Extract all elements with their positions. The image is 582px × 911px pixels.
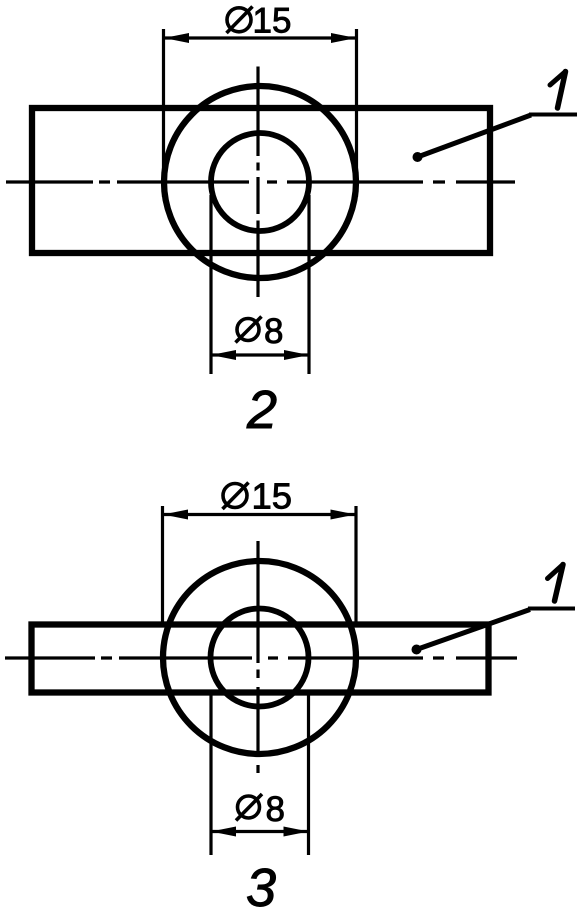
svg-text:2: 2 [246,380,277,440]
fig3 horizontal centerline [5,656,517,659]
fig3 vertical centerline [256,541,259,773]
fig2 Ø15 left extension line [162,29,165,197]
fig3 Ø8 dimension line [211,830,309,833]
fig3 Ø15 left arrowhead [163,510,188,520]
fig2 part label 1 [550,72,566,109]
fig3 leader line diagonal [417,610,531,650]
fig3 Ø8 right extension line [307,694,310,855]
fig2 horizontal centerline [6,180,515,183]
fig3 outer circle (washer OD, Ø15) [163,561,356,754]
fig2 leader line shelf [529,113,577,117]
fig3 Ø15 right arrowhead [331,510,356,520]
fig3 Ø15 dimension text: diameter symbol [223,483,249,510]
svg-text:8: 8 [266,790,285,829]
fig3 part label 1 [548,565,564,602]
fig2 Ø8 left arrowhead [211,350,236,360]
fig2 Ø15 dimension text: diameter symbol [227,7,253,34]
fig2 Ø15 dimension line [164,36,356,39]
fig2 Ø15 right arrowhead [331,33,356,43]
fig2 Ø15 left arrowhead [164,33,189,43]
fig3 leader dot on part [412,645,422,655]
fig3 Ø8 left arrowhead [211,827,236,837]
fig3 Ø8 right arrowhead [284,827,309,837]
fig2 vertical centerline [256,67,259,298]
fig3 inner circle (hole, Ø8) [211,609,309,707]
fig2 bar outline (part 1) [32,108,490,253]
fig2 leader line diagonal [418,115,532,157]
fig2 Ø8 dimension line [211,353,309,356]
fig2 Ø8 right extension line [307,195,310,374]
fig2 Ø8 dimension text: diameter symbol [236,317,262,343]
fig2 inner circle (hole, Ø8) [211,133,309,231]
fig2 Ø8 right arrowhead [284,350,309,360]
fig3 bar outline (part 1) [32,625,489,693]
svg-text:15: 15 [253,2,292,41]
fig3 Ø15 dimension line [163,513,356,516]
svg-text:8: 8 [264,312,283,351]
fig3 leader line shelf [528,607,575,611]
fig2 Ø15 right extension line [355,29,358,197]
fig3 Ø8 left extension line [209,694,212,855]
svg-text:15: 15 [252,476,293,517]
fig3 Ø15 left extension line [161,506,164,627]
fig3 Ø8 dimension text: diameter symbol [236,794,262,821]
svg-text:3: 3 [246,858,276,911]
fig2 outer circle (washer OD, Ø15) [164,86,356,278]
fig2 Ø8 left extension line [209,195,212,374]
fig3 Ø15 right extension line [354,506,357,627]
fig2 leader dot on part [413,152,423,162]
